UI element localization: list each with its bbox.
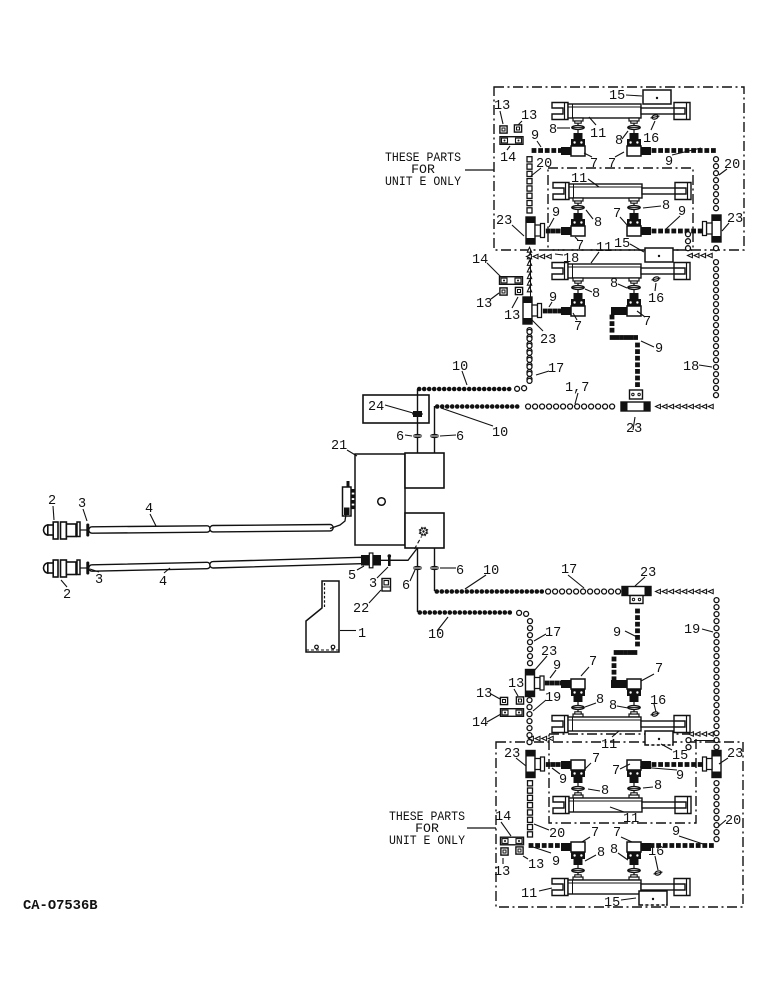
hose 9 squares (row2 right) <box>652 229 657 234</box>
svg-text:10: 10 <box>428 628 444 643</box>
hose 20 open squares (bottom left riser) <box>528 781 533 786</box>
svg-text:15: 15 <box>609 89 625 104</box>
svg-text:6: 6 <box>456 430 464 445</box>
link from rod 4 to lever <box>330 514 346 529</box>
svg-text:9: 9 <box>613 626 621 641</box>
svg-text:9: 9 <box>549 291 557 306</box>
svg-text:13: 13 <box>521 109 537 124</box>
hose 9 squares (row3 left) <box>543 309 548 314</box>
hose 10 dots (fourth run) <box>418 610 423 615</box>
svg-text:24: 24 <box>368 400 384 415</box>
svg-text:13: 13 <box>504 309 520 324</box>
bracket box 24 <box>363 395 429 423</box>
svg-text:13: 13 <box>508 677 524 692</box>
hydraulic cylinder 11 (top row 1) <box>552 103 568 120</box>
tube line bottom right <box>434 548 436 591</box>
svg-text:20: 20 <box>549 827 565 842</box>
vent screw 16 (row1) <box>651 114 658 120</box>
reservoir box 15 (row1) <box>643 90 671 104</box>
hose 10 circles (fourth run corner) <box>517 610 522 615</box>
plate 14 (bottom grpA) <box>501 709 524 717</box>
hose 9 squares (bottom row2 left) <box>546 762 551 767</box>
fitting 6 (top left) <box>413 434 423 438</box>
svg-text:9: 9 <box>552 855 560 870</box>
hose 9 squares (row1 right) <box>652 148 657 153</box>
valve stack + elbow 7 (bottom row1 left) <box>573 714 583 717</box>
hose 18 hook circles (right) <box>686 232 691 237</box>
hose 18 beads below right tee <box>714 246 719 251</box>
svg-text:7: 7 <box>574 320 582 335</box>
hose 18 hook circles (bottom right) <box>686 738 691 743</box>
svg-text:13: 13 <box>494 99 510 114</box>
fitting 6 (bottom right) <box>430 566 440 570</box>
svg-text:16: 16 <box>648 845 664 860</box>
tee fitting 23 (row2 right) <box>712 215 721 242</box>
svg-text:5: 5 <box>348 569 356 584</box>
svg-text:8: 8 <box>597 846 605 861</box>
hose 10 dots (second run) <box>435 404 440 409</box>
svg-text:23: 23 <box>496 214 512 229</box>
fitting 6 (bottom left) <box>413 566 423 570</box>
reservoir box 15 (row3) <box>645 248 673 262</box>
valve stack + elbow 7 (row1 right) <box>629 118 639 121</box>
hose 20 open squares (left riser) <box>527 157 532 162</box>
control valve block 21 <box>355 454 405 545</box>
tube line right (to chain 10 second) <box>434 406 436 453</box>
valve stack + elbow 7 (row2 right) <box>629 198 639 201</box>
svg-text:15: 15 <box>672 749 688 764</box>
dash-dot boundary box, top inner group <box>548 168 693 250</box>
leader from note to bottom box <box>467 827 496 829</box>
svg-text:18: 18 <box>563 252 579 267</box>
washer 13 (top grp2 b) <box>515 287 522 294</box>
leader from note to top box <box>465 169 494 171</box>
hose 9 squares (bottom row2 right) <box>652 762 657 767</box>
svg-text:UNIT E ONLY: UNIT E ONLY <box>389 833 465 848</box>
rod 4 (lower, segment 1) <box>89 562 210 571</box>
fitting inside box 24 <box>413 411 422 417</box>
svg-text:14: 14 <box>472 253 488 268</box>
svg-text:15: 15 <box>614 237 630 252</box>
reservoir box 15 (bottom row1) <box>645 731 673 745</box>
clip 22 <box>382 579 391 592</box>
hose 18 stub triangles (left) <box>546 254 551 258</box>
svg-text:9: 9 <box>676 769 684 784</box>
jam nut 3 (lower rod) <box>77 560 80 575</box>
lever on valve block <box>347 481 350 487</box>
svg-text:11: 11 <box>623 812 639 827</box>
dash-dot boundary box, top UNIT E group <box>494 87 744 250</box>
svg-text:10: 10 <box>452 360 468 375</box>
hose 9 squares (bottom row3 left) <box>529 843 534 848</box>
svg-text:8: 8 <box>594 216 602 231</box>
hose 18 hook triangles (right) <box>707 253 712 257</box>
hose 18 stub triangles (bottom left) <box>548 736 553 740</box>
svg-text:23: 23 <box>727 212 743 227</box>
svg-text:8: 8 <box>601 784 609 799</box>
knob 2 (lower rod) <box>44 563 49 573</box>
tee fitting 23 (top-half bottom center) <box>621 402 650 411</box>
valve stack + elbow 7 (bottom row2 right) <box>629 795 639 798</box>
rod 4 (upper, segment 1) <box>89 526 210 533</box>
tube line bottom left <box>417 548 419 612</box>
svg-text:9: 9 <box>678 205 686 220</box>
svg-text:UNIT E ONLY: UNIT E ONLY <box>385 174 461 189</box>
svg-text:7: 7 <box>591 826 599 841</box>
tee fitting 23 (row2 left) <box>526 217 535 244</box>
plate 14 (top grp1) <box>500 137 523 145</box>
svg-text:14: 14 <box>495 810 511 825</box>
mount bracket 1 <box>306 581 339 652</box>
svg-text:7: 7 <box>612 764 620 779</box>
svg-text:13: 13 <box>476 297 492 312</box>
washer 13 (top grp2 a) <box>500 288 507 295</box>
svg-text:7: 7 <box>613 826 621 841</box>
valve stack + elbow 7 (row3 left) <box>573 278 583 281</box>
svg-text:11: 11 <box>521 887 537 902</box>
vent screw 16 (row3) <box>652 276 659 282</box>
plate 14 (bottom grpB) <box>501 837 524 845</box>
dash-dot boundary box, bottom inner group <box>549 734 696 823</box>
hydraulic cylinder 11 (bottom row 3) <box>552 879 568 896</box>
svg-text:17: 17 <box>548 362 564 377</box>
svg-text:23: 23 <box>540 333 556 348</box>
valve stack + elbow 7 (row2 left) <box>573 198 583 201</box>
svg-text:13: 13 <box>494 865 510 880</box>
svg-text:11: 11 <box>571 172 587 187</box>
plate 14 (top grp2) <box>500 277 523 285</box>
hose riser circles between bottom tees (left) <box>527 698 532 703</box>
hose 20 open circles (bottom right riser) <box>714 781 719 786</box>
hose 18 right riser circles <box>714 260 719 265</box>
svg-text:4: 4 <box>159 575 167 590</box>
svg-text:23: 23 <box>541 645 557 660</box>
hose 17 riser circles <box>527 378 532 383</box>
svg-text:8: 8 <box>609 699 617 714</box>
svg-text:8: 8 <box>654 779 662 794</box>
svg-text:7: 7 <box>655 662 663 677</box>
jam nut 3 (upper rod) <box>77 522 80 537</box>
svg-text:7: 7 <box>592 752 600 767</box>
svg-text:3: 3 <box>78 497 86 512</box>
svg-text:6: 6 <box>396 430 404 445</box>
nut 3 (near coupler) <box>388 557 391 567</box>
valve stack + elbow 7 (bottom row3 right) <box>629 877 639 880</box>
svg-text:22: 22 <box>353 602 369 617</box>
rod 4 (lower, segment 2) <box>210 557 364 568</box>
port symbol on valve block <box>420 528 427 535</box>
hose 9 stepped squares (from center tee down) <box>635 609 640 614</box>
hose 20 open circles (right riser) <box>714 157 719 162</box>
svg-text:7: 7 <box>613 207 621 222</box>
svg-text:9: 9 <box>672 825 680 840</box>
svg-text:14: 14 <box>500 151 516 166</box>
svg-text:8: 8 <box>615 134 623 149</box>
svg-text:15: 15 <box>604 896 620 911</box>
svg-text:1: 1 <box>358 627 366 642</box>
washer 13 (top grp1 a) <box>500 126 507 133</box>
svg-text:7: 7 <box>590 157 598 172</box>
svg-text:6: 6 <box>456 564 464 579</box>
tee fitting 23 (row3 left) <box>523 297 532 324</box>
washer 13 (bottom grpA a) <box>500 697 507 704</box>
union nut above bottom tee <box>630 390 643 399</box>
hose 9 stepped squares (row3 right to bottom tee) <box>610 315 615 320</box>
tube line left (to chain 10 upper) <box>417 389 419 395</box>
hydraulic cylinder 11 (bottom row 1) <box>552 716 568 733</box>
svg-text:19: 19 <box>684 623 700 638</box>
svg-text:8: 8 <box>592 287 600 302</box>
washer 13 (bottom grpB a) <box>501 848 508 855</box>
svg-text:8: 8 <box>610 843 618 858</box>
svg-text:1,7: 1,7 <box>565 381 589 396</box>
valve stack + elbow 7 (bottom row3 left) <box>573 877 583 880</box>
hose riser beads between tees (left) <box>527 247 531 252</box>
tee fitting 23 (bottom row1 left) <box>526 670 535 697</box>
svg-text:11: 11 <box>596 241 612 256</box>
svg-text:17: 17 <box>545 626 561 641</box>
vent screw 16 (bottom row3) <box>654 870 661 876</box>
svg-text:16: 16 <box>648 292 664 307</box>
valve stack + elbow 7 (row1 left) <box>573 118 583 121</box>
svg-text:7: 7 <box>608 157 616 172</box>
valve stack + elbow 7 (bottom row1 right) <box>629 714 639 717</box>
hydraulic cylinder 11 (row 2) <box>553 183 569 200</box>
svg-text:3: 3 <box>369 577 377 592</box>
svg-text:13: 13 <box>528 858 544 873</box>
vent screw 16 (bottom row1) <box>651 711 658 717</box>
svg-text:14: 14 <box>472 716 488 731</box>
svg-text:10: 10 <box>483 564 499 579</box>
wire from coupler to valve <box>381 559 408 561</box>
washer 13 (bottom grpA b) <box>516 697 523 704</box>
hose 17 circles (third run) <box>546 589 551 594</box>
tee fitting 23 (bottom row2 left) <box>526 751 535 778</box>
valve stack + elbow 7 (row3 right) <box>629 278 639 281</box>
svg-text:11: 11 <box>601 738 617 753</box>
hose 9 squares (bottom row1 left) <box>545 681 550 686</box>
reservoir box 15 (bottom row3) <box>639 891 667 905</box>
wire from nut 3 to valve block <box>391 549 417 561</box>
svg-text:11: 11 <box>590 127 606 142</box>
hose 10 dots (upper run) <box>417 387 422 392</box>
svg-text:2: 2 <box>48 494 56 509</box>
svg-text:21: 21 <box>331 439 347 454</box>
svg-text:20: 20 <box>725 814 741 829</box>
hose 10 dots (third run) <box>435 589 440 594</box>
hose 17 riser circles (bottom left) <box>528 619 533 624</box>
svg-text:2: 2 <box>63 588 71 603</box>
hose 9 squares (row2 left) <box>546 229 551 234</box>
svg-text:8: 8 <box>610 277 618 292</box>
hose 18 triangles to bottom tee <box>708 404 713 408</box>
hose 9 squares (row1 left) <box>532 148 537 153</box>
svg-text:8: 8 <box>662 199 670 214</box>
svg-text:CA-O7536B: CA-O7536B <box>23 899 98 914</box>
valve stack + elbow 7 (bottom row2 left) <box>573 795 583 798</box>
hose 17 circles (second run to tee) <box>526 404 531 409</box>
svg-text:18: 18 <box>683 360 699 375</box>
tee fitting 23 (bottom-half top center) <box>622 587 651 596</box>
svg-text:3: 3 <box>95 573 103 588</box>
svg-text:16: 16 <box>650 694 666 709</box>
svg-text:9: 9 <box>665 155 673 170</box>
tee fitting 23 (bottom row2 right) <box>712 751 721 778</box>
svg-text:9: 9 <box>655 342 663 357</box>
svg-text:9: 9 <box>559 773 567 788</box>
hydraulic cylinder 11 (row 3) <box>552 263 568 280</box>
svg-text:6: 6 <box>402 579 410 594</box>
svg-text:4: 4 <box>145 502 153 517</box>
hose 19 triangles (top run) <box>708 589 713 593</box>
svg-text:19: 19 <box>545 691 561 706</box>
hose 10 open circles end (upper run) <box>515 386 520 391</box>
svg-text:8: 8 <box>549 123 557 138</box>
fitting 6 (top right) <box>430 434 440 438</box>
hose 9 squares (bottom row3 right) <box>650 843 655 848</box>
hydraulic cylinder 11 (bottom row 2) <box>553 797 569 814</box>
hose riser circles below row3 tee (left) <box>527 328 532 333</box>
rod 4 (upper, segment 2) <box>210 525 333 532</box>
knob 2 (upper rod) <box>44 525 49 535</box>
hose 18 hook triangles (bottom right) <box>708 732 713 736</box>
dash-dot boundary box, bottom UNIT E group <box>496 742 743 907</box>
coupler 5 <box>361 555 370 566</box>
svg-text:23: 23 <box>727 747 743 762</box>
washer 13 (bottom grpB b) <box>516 847 523 854</box>
svg-text:16: 16 <box>643 132 659 147</box>
svg-text:20: 20 <box>724 158 740 173</box>
svg-text:8: 8 <box>596 693 604 708</box>
svg-text:13: 13 <box>476 687 492 702</box>
hose 19 riser circles (right) <box>714 598 719 603</box>
washer 13 (top grp1 b) <box>514 125 521 132</box>
svg-text:7: 7 <box>589 655 597 670</box>
svg-text:10: 10 <box>492 426 508 441</box>
svg-text:7: 7 <box>643 315 651 330</box>
